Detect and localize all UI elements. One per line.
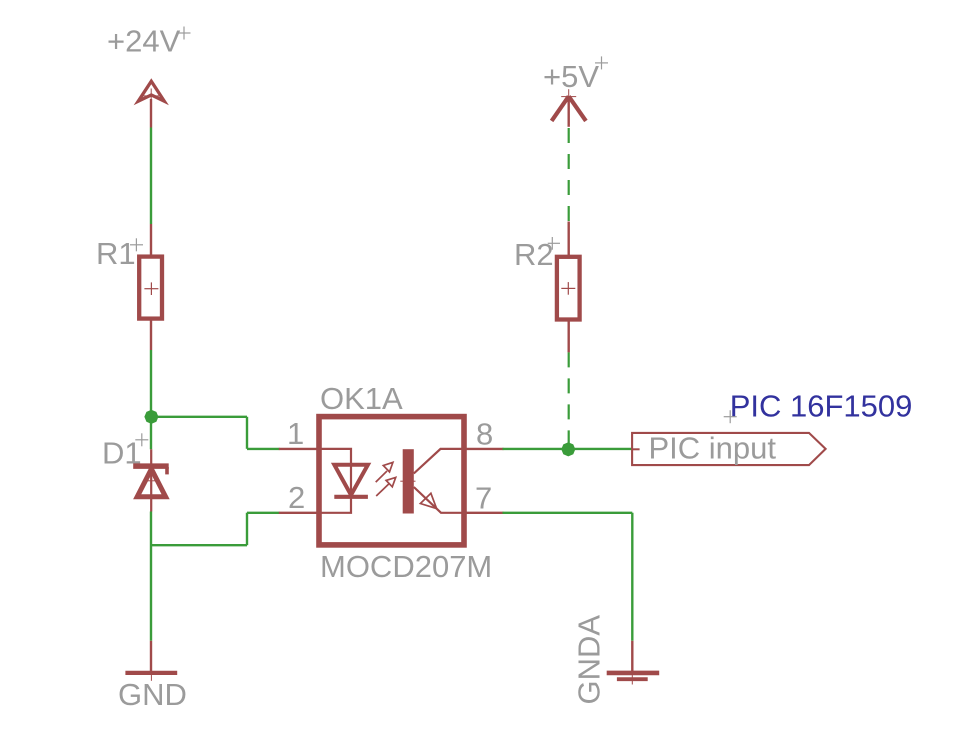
net label PIC 16F1509 [730,389,913,424]
svg-text:PIC 16F1509: PIC 16F1509 [730,389,913,424]
junction node (right) [562,443,575,456]
net label origin cross [724,410,737,423]
OK1A emitter line [414,487,463,513]
pin 7 label [475,481,492,516]
optocoupler OK1A label [320,381,403,416]
OK1A emitter arrowhead [420,493,436,508]
ground GNDA origin cross [631,668,633,685]
pin 8 label [476,417,493,452]
OK1A phototransistor base bar [403,449,414,513]
resistor R2 label [514,237,554,272]
pin R2 top [568,222,570,256]
pin 1 of OK1A [279,448,317,450]
pin 8 of OK1A [464,448,504,450]
svg-text:1: 1 [287,416,304,451]
zener diode D1 bar hook [165,467,169,474]
supply symbol +5V (chevron) [552,96,586,121]
wire to pin1 [247,448,280,450]
pin R1 bottom [150,319,152,350]
svg-text:2: 2 [288,480,305,515]
ground GND symbol bar [125,671,177,675]
pin R2 bottom [568,320,570,352]
diode D1 label origin cross [135,433,148,446]
pin 1 label [287,416,304,451]
resistor R1 label origin cross [130,238,143,251]
wire branch to pin2 (horizontal) [151,544,247,546]
dashed wire +5V to R2 [568,128,570,222]
resistor R1 origin cross [144,282,158,295]
pin D1 (through) [150,449,152,511]
ground GNDA symbol upper bar [607,671,660,676]
OK1A origin cross [400,480,415,482]
ground GND origin cross [144,665,160,681]
OK1A light arrow upper [376,462,393,482]
wire down to pin1 level [246,417,248,449]
pin GND [150,641,152,671]
ground GNDA symbol lower bar [617,677,648,681]
resistor R2 origin cross [561,282,575,295]
flag PIC input outline [632,433,826,465]
pin of +5V supply [568,97,570,127]
supply +24V label origin cross [178,27,191,40]
wire down to GNDA [631,513,633,641]
diode D1 origin cross [146,480,157,482]
supply +24V label [107,24,181,59]
pin 7 of OK1A [464,512,504,514]
wire +24V to R1 [150,128,152,225]
wire pin7 right [503,512,633,514]
svg-text:PIC input: PIC input [649,431,777,466]
ground GND label [118,677,187,712]
dashed wire R2 to junction [568,352,570,443]
flag origin tick [632,448,640,450]
supply +24V origin cross [144,89,160,101]
pin 2 label [288,480,305,515]
optocoupler type label MOCD207M [320,549,492,584]
diode D1 label [102,436,142,471]
resistor R1 label [96,236,136,271]
svg-text:MOCD207M: MOCD207M [320,549,492,584]
svg-text:GNDA: GNDA [572,615,607,705]
zener diode D1 cathode bar [133,463,169,469]
zener diode D1 triangle [137,469,165,497]
resistor R2 label origin cross [548,237,560,250]
supply +5V label origin cross [595,56,608,69]
supply symbol +24V (arrow) [134,78,169,105]
optocoupler OK1A body box [319,417,464,545]
junction node (left) [145,410,158,423]
flag PIC input label [649,431,777,466]
wire junction to D1 [150,417,152,449]
svg-text:+24V: +24V [107,24,181,59]
wire to pin2 [247,512,280,514]
ground GNDA label (rotated) [572,615,607,705]
supply +5V label [543,59,599,94]
svg-text:R1: R1 [96,236,136,271]
svg-text:7: 7 [475,481,492,516]
wire R1 to junction [150,350,152,417]
svg-text:8: 8 [476,417,493,452]
wire D1 to GND [150,512,152,641]
OK1A LED triangle [334,465,368,495]
pin R1 top [150,224,152,256]
pin 2 of OK1A [279,512,317,514]
OK1A collector line [414,449,463,474]
supply +5V origin cross [561,89,576,104]
pin of +24V supply [150,99,152,128]
OK1A LED cathode bar [334,495,368,499]
wire pin8 to flag [503,448,633,450]
svg-text:OK1A: OK1A [320,381,403,416]
pin GNDA [631,641,633,671]
resistor R1 body [139,257,162,319]
wire junction right [151,416,247,418]
svg-text:GND: GND [118,677,187,712]
OK1A internal LED connection [317,449,351,513]
svg-text:+5V: +5V [543,59,599,94]
resistor R2 body [557,257,580,320]
svg-text:R2: R2 [514,237,554,272]
OK1A light arrow lower [376,477,396,496]
wire branch vertical to pin2 [246,513,248,546]
